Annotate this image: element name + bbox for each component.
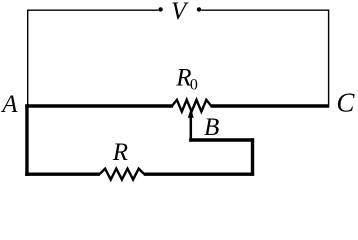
wire top-right segment xyxy=(201,9,329,11)
svg-text:B: B xyxy=(204,114,219,141)
svg-text:C: C xyxy=(336,87,355,117)
wire B horizontal segment xyxy=(189,138,254,141)
svg-text:A: A xyxy=(0,91,18,118)
wire left vertical (A to bottom) xyxy=(25,104,28,175)
wire right vertical (voltmeter branch) xyxy=(328,10,330,105)
wire right vertical (bottom to B level) xyxy=(251,138,254,175)
wire bottom left segment xyxy=(25,172,100,175)
svg-text:0: 0 xyxy=(190,77,198,94)
svg-text:R: R xyxy=(112,139,128,166)
wire middle right (R0 to C) xyxy=(211,104,330,107)
resistor R0 xyxy=(172,100,211,112)
node V right terminal dot xyxy=(197,7,201,11)
node V left terminal dot xyxy=(158,7,162,11)
wire left vertical (voltmeter branch) xyxy=(27,10,29,105)
wire middle left (A to R0) xyxy=(25,104,173,107)
wire bottom right segment xyxy=(144,172,254,175)
wiper arrowhead (points to B on R0) xyxy=(188,108,194,117)
wire wiper stem xyxy=(190,116,193,142)
resistor R xyxy=(100,169,145,180)
wire top-left segment xyxy=(27,9,158,11)
